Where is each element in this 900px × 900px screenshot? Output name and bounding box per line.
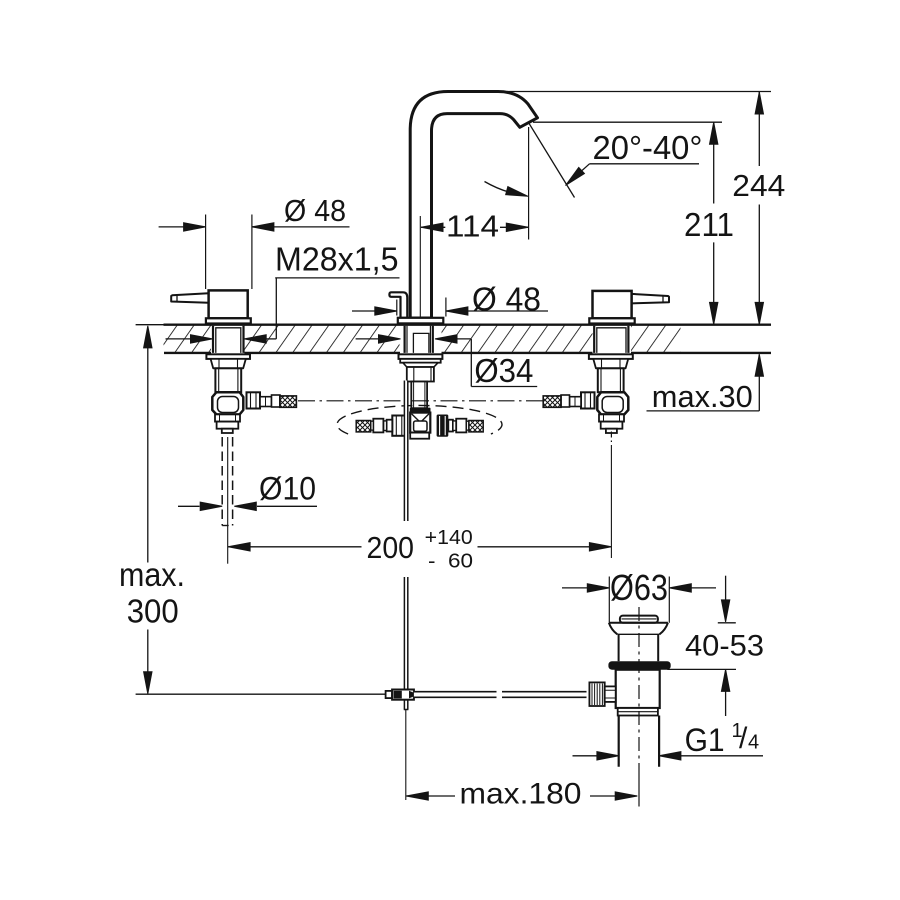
- swivel arc: [485, 182, 518, 195]
- left hex facets: [219, 359, 238, 368]
- clamp block: [392, 690, 414, 700]
- drain cap inner line: [622, 618, 657, 620]
- dim 114 line right: [500, 226, 528, 228]
- swivel dashed ellipse: [337, 405, 502, 434]
- left bottom nut: [217, 422, 239, 429]
- tee right braid: [469, 421, 483, 432]
- deck bottom line seg1: [164, 352, 211, 354]
- dim 211 top arrow: [710, 122, 718, 144]
- dim 4053 bottom line: [725, 691, 727, 716]
- tee left nut facets: [396, 416, 402, 436]
- angle leader arrow: [563, 167, 585, 188]
- left dashed rod bottom: [222, 525, 232, 527]
- tee right nut2: [456, 419, 466, 433]
- dim o34 right arrow: [435, 335, 457, 343]
- dim max180 right arrow: [615, 792, 637, 800]
- hose dash-dot centerline: [298, 400, 543, 402]
- right cylinder inner lines: [601, 368, 620, 392]
- dim 244 bottom arrow: [755, 302, 763, 324]
- pop-up knob: [389, 292, 407, 318]
- knurled knob: [589, 682, 604, 706]
- left locknut flange: [206, 354, 250, 359]
- dim 114 right arrow: [506, 223, 528, 231]
- dim center o48 right arrow: [446, 307, 468, 315]
- spout body: [410, 92, 537, 319]
- left cylinder inner lines: [219, 368, 238, 392]
- pop-up rod bottom cap: [404, 709, 409, 711]
- dim 211 bottom arrow: [710, 302, 718, 324]
- dim o63 ext lines: [609, 577, 669, 623]
- drain thread relief: [618, 708, 658, 716]
- tee top cap: [410, 408, 431, 413]
- dim left o48 line left: [159, 226, 206, 228]
- left side stub line: [265, 397, 267, 407]
- tee left spacer: [371, 421, 374, 430]
- dim G114 right arrow: [659, 752, 681, 760]
- center shank sides: [405, 326, 433, 353]
- right side hex facets: [585, 392, 591, 408]
- dim o34 left arrow: [379, 335, 401, 343]
- knurl lines: [592, 684, 602, 706]
- svg-text:/: /: [739, 722, 748, 755]
- left bottom outlet: [222, 429, 233, 433]
- dim 4053 top arrow: [721, 600, 729, 622]
- spout centerline: [419, 216, 421, 318]
- deck top line extension thin left: [136, 324, 164, 326]
- right locknut flange: [589, 354, 633, 359]
- right bottom stub: [599, 414, 624, 421]
- svg-text:20°-40°: 20°-40°: [593, 129, 703, 166]
- swivel arc arrow: [506, 187, 529, 201]
- left bottom stub lines: [220, 414, 236, 421]
- deck bottom line seg3: [442, 352, 593, 354]
- dim 244 top arrow: [755, 92, 763, 114]
- dim o63 left tail: [562, 587, 588, 589]
- right side hex nut: [581, 392, 595, 408]
- svg-text:- 60: - 60: [428, 549, 473, 572]
- right shank sides: [594, 326, 628, 353]
- svg-text:max.30: max.30: [652, 379, 753, 414]
- dim left o48 right arrow: [252, 223, 274, 231]
- svg-text:+140: +140: [425, 526, 473, 549]
- deck hatch left section: [164, 326, 212, 353]
- right handle body: [593, 291, 632, 318]
- left handle body: [209, 290, 248, 318]
- tee left ring: [383, 421, 386, 431]
- deck hatch right section: [631, 326, 681, 353]
- svg-text:G1: G1: [685, 722, 725, 758]
- M28 left arrow: [191, 335, 213, 343]
- tee body: [410, 413, 430, 433]
- center shoulder: [403, 363, 438, 367]
- right handle base flange: [589, 318, 634, 323]
- drain trumpet left: [609, 623, 617, 635]
- left side stub: [260, 397, 272, 407]
- max30 vertical: [758, 355, 760, 411]
- tee left nut: [392, 416, 406, 436]
- right handle lever: [632, 294, 669, 304]
- svg-text:40-53: 40-53: [685, 630, 764, 663]
- dim max180 right tail: [590, 795, 637, 797]
- dim left o48 line right: [252, 226, 350, 228]
- deck bottom line seg2: [245, 352, 401, 354]
- dim 200 line left: [228, 546, 361, 548]
- dim center o48 left arrow: [375, 307, 397, 315]
- clamp black wedge: [409, 691, 414, 699]
- left side hex facets: [251, 392, 257, 408]
- dim o63 left arrow: [587, 584, 609, 592]
- dim o34 underline: [471, 386, 537, 388]
- right valve block: [597, 392, 628, 414]
- left cylinder: [215, 368, 241, 392]
- knob stem: [605, 686, 616, 702]
- left shank sides: [213, 326, 244, 353]
- right handle centerline solid extension: [610, 445, 612, 558]
- left handle base flange: [206, 318, 251, 323]
- right hose braid: [543, 396, 561, 407]
- left valve block: [212, 392, 243, 414]
- right hex facets: [602, 359, 621, 368]
- left handle centerline: [227, 437, 229, 564]
- center tube inner lines: [414, 382, 425, 409]
- dim o63 right tail: [691, 587, 716, 589]
- tee inner square: [414, 421, 427, 431]
- center shank inner: [413, 333, 429, 353]
- dim 211 extension line: [533, 121, 722, 123]
- dim o10 right tail: [257, 505, 317, 507]
- drain upper body sides: [619, 634, 659, 661]
- deck hatch left-center section: [245, 326, 400, 353]
- center supply tube: [411, 382, 427, 409]
- pop-up rod white core: [404, 381, 409, 522]
- dim center o48 line left: [352, 310, 397, 312]
- center locknut flange: [399, 354, 443, 359]
- center neck: [407, 367, 434, 382]
- right hex nut: [593, 359, 628, 368]
- dim 200 line right: [478, 546, 612, 548]
- tee left nut2: [373, 419, 383, 433]
- drain waist line: [617, 633, 659, 635]
- dim 200 left arrow: [228, 543, 250, 551]
- pop-up rod edges: [404, 381, 407, 710]
- M28 right tail: [264, 338, 276, 340]
- angle stream line: [529, 123, 575, 197]
- svg-text:211: 211: [684, 206, 734, 243]
- drain tail tube: [619, 716, 659, 767]
- dim 200 right arrow: [589, 543, 611, 551]
- dim 4053 top line: [725, 576, 727, 601]
- svg-text:Ø 48: Ø 48: [472, 282, 541, 319]
- svg-text:4: 4: [748, 732, 759, 754]
- dim 4053 tick: [718, 622, 736, 624]
- rod extension line: [405, 710, 407, 801]
- svg-text:M28x1,5: M28x1,5: [275, 241, 399, 278]
- dim left o48 left arrow: [184, 223, 206, 231]
- dim 114 left arrow: [421, 223, 443, 231]
- max30 arrow: [755, 354, 763, 376]
- center neck inner lines: [414, 367, 431, 382]
- dim G114 left arrow: [597, 752, 619, 760]
- drain centerline dash-dot: [638, 607, 640, 766]
- dim o63 right arrow: [669, 584, 691, 592]
- max300 reference line: [136, 693, 386, 695]
- right bottom stub lines: [604, 414, 620, 421]
- drain body: [616, 670, 660, 708]
- dim 211 vertical line: [713, 122, 715, 323]
- max30 underline: [647, 410, 760, 412]
- left dashed rod (Ø10): [222, 437, 232, 526]
- dim o10 left arrow: [200, 502, 222, 510]
- left hex nut: [211, 359, 246, 368]
- dim 4053 bottom arrow: [721, 669, 729, 691]
- right side stub: [570, 397, 582, 407]
- tee right ring: [453, 421, 456, 431]
- svg-text:Ø10: Ø10: [259, 471, 316, 507]
- tee left washer: [387, 420, 393, 432]
- dim o10 left tail: [178, 505, 200, 507]
- dim max180 left arrow: [406, 792, 428, 800]
- max300 bottom arrow: [144, 672, 152, 694]
- svg-text:max.180: max.180: [460, 778, 582, 811]
- dim G114 left tail: [573, 755, 598, 757]
- M28 leader vertical: [275, 278, 277, 339]
- tee left braid: [356, 421, 371, 432]
- knob stem lines: [605, 690, 616, 698]
- dim center o48 ext lines: [397, 298, 446, 317]
- svg-text:300: 300: [127, 593, 179, 630]
- right side stub line: [574, 397, 576, 407]
- angle leader diagonal: [568, 164, 590, 184]
- drain centerline solid extension: [638, 766, 640, 807]
- dim center o48 line right: [446, 310, 548, 312]
- dim o34 right tail: [455, 338, 471, 340]
- linkage rod segment 1: [414, 691, 497, 698]
- deck top line: [164, 324, 772, 326]
- drain cap: [620, 616, 658, 623]
- max300 top arrow: [144, 326, 152, 348]
- clamp black left: [394, 691, 402, 699]
- dim G114 right tail: [681, 755, 763, 757]
- drain trumpet right: [660, 623, 668, 635]
- left side hex nut: [247, 392, 261, 408]
- svg-text:114: 114: [446, 209, 499, 244]
- tee bottom: [410, 433, 429, 439]
- dim 114 right extension: [528, 127, 530, 240]
- left handle lever: [171, 293, 208, 303]
- svg-text:Ø 48: Ø 48: [284, 194, 346, 228]
- right valve inner: [602, 397, 623, 413]
- dim max180 left tail: [406, 795, 455, 797]
- clamp nub: [386, 691, 393, 698]
- drain thread relief inner: [618, 711, 658, 713]
- dim 244 vertical line: [758, 92, 760, 324]
- dim 4053 ref line: [667, 668, 736, 670]
- dim 244 extension line: [507, 91, 771, 93]
- max300 vertical line: [147, 327, 149, 693]
- left side washer: [272, 395, 281, 407]
- right bottom nut: [601, 422, 623, 429]
- dim o34 left tail: [356, 338, 380, 340]
- spout base flange: [398, 318, 444, 324]
- svg-text:244: 244: [732, 168, 785, 203]
- center sub flange: [400, 359, 441, 363]
- right shank inner: [597, 328, 626, 353]
- right bottom outlet: [606, 429, 617, 433]
- svg-text:max.: max.: [119, 556, 185, 593]
- drain seal ring: [608, 661, 670, 670]
- M28 right arrow: [244, 335, 266, 343]
- M28 left tail: [166, 338, 193, 340]
- dim 114 line left: [421, 226, 445, 228]
- right cylinder: [598, 368, 624, 392]
- right handle dash-dot centerline: [610, 432, 612, 444]
- svg-text:200: 200: [367, 530, 415, 565]
- M28 underline: [275, 277, 399, 279]
- dim o10 right arrow: [234, 502, 256, 510]
- drain flange top: [609, 622, 668, 624]
- tee V lines: [412, 414, 430, 421]
- deck hatch center-right section: [442, 326, 593, 353]
- right side washer: [561, 395, 570, 407]
- tee right spacer: [466, 421, 469, 430]
- left bottom stub: [215, 414, 240, 421]
- linkage rod segment 2: [502, 691, 587, 698]
- left shank inner: [216, 328, 241, 353]
- svg-text:Ø34: Ø34: [474, 352, 533, 389]
- left valve inner: [218, 397, 239, 413]
- dim o34 leader vertical: [470, 339, 472, 387]
- left hose braid: [280, 396, 297, 407]
- center shank second lines: [407, 326, 430, 353]
- dim left o48 ext lines: [206, 215, 252, 290]
- angle leader underline: [590, 163, 700, 165]
- deck bottom line seg4: [631, 352, 771, 354]
- svg-text:Ø63: Ø63: [610, 567, 668, 608]
- tee right black nut: [437, 415, 449, 437]
- tee right washer: [448, 420, 453, 432]
